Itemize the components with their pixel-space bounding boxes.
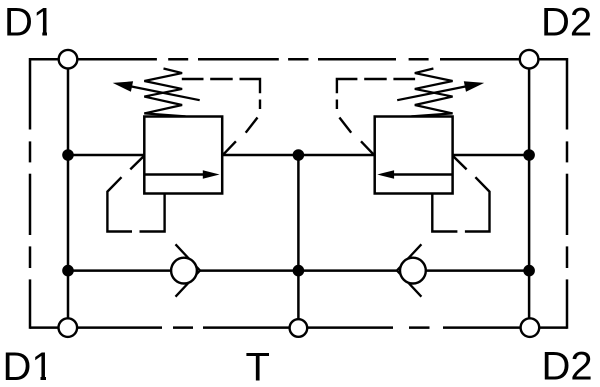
- enclosure border right: [566, 58, 569, 329]
- node dot left rail / main line: [62, 149, 74, 161]
- svg-text:D1: D1: [4, 1, 55, 45]
- svg-text:D2: D2: [541, 1, 592, 45]
- wire valve V2 to right rail: [453, 154, 529, 157]
- pilot line dashed V2 top (to spring cap): [337, 79, 415, 156]
- wire main line left rail to valve V1: [68, 154, 144, 157]
- node dot right rail / main line: [523, 149, 535, 161]
- wire center vertical T rail: [297, 155, 300, 328]
- relief valve V1 flow arrow: [144, 170, 219, 179]
- check valve C2 ball: [400, 258, 426, 284]
- wire center node to valve V2: [298, 154, 374, 157]
- node dot left rail / check line: [62, 265, 74, 277]
- pilot drain dashed V1 bottom: [107, 156, 164, 232]
- wire center node to check C2: [298, 269, 397, 272]
- svg-text:D1: D1: [3, 345, 54, 387]
- relief valve V2 body: [375, 117, 453, 194]
- relief valve V1 spring: [144, 69, 185, 117]
- wire right vertical D2 rail: [528, 59, 531, 327]
- port D1 bottom: [59, 318, 78, 337]
- node dot center / check line: [293, 265, 305, 277]
- relief valve V2 adjust arrow: [397, 81, 484, 100]
- wire check C1 to center node: [200, 269, 299, 272]
- enclosure border left: [29, 58, 32, 329]
- node dot center / main line: [293, 149, 305, 161]
- relief valve V1 adjust arrow: [113, 81, 200, 100]
- port D1 top: [59, 50, 78, 69]
- pilot drain dashed V2 bottom: [432, 156, 489, 232]
- port T: [290, 319, 308, 337]
- relief valve V1 body: [144, 117, 222, 194]
- check valve C1 seat: [176, 244, 201, 296]
- port D2 bottom: [521, 318, 540, 337]
- wire left vertical D1 rail: [67, 59, 70, 327]
- check valve C1 ball: [171, 258, 197, 284]
- relief valve V2 flow arrow: [377, 170, 452, 179]
- enclosure border bottom: [30, 326, 567, 329]
- svg-text:D2: D2: [542, 345, 593, 387]
- port D2 top: [520, 50, 539, 69]
- enclosure border top: [30, 58, 567, 61]
- pilot line dashed V1 top (to spring cap): [182, 79, 260, 156]
- wire check C2 to right rail: [413, 269, 529, 272]
- svg-text:T: T: [246, 346, 270, 387]
- wire valve V1 to center node: [222, 154, 298, 157]
- node dot right rail / check line: [523, 265, 535, 277]
- wire check line left rail to check C1: [68, 269, 184, 272]
- relief valve V2 spring: [411, 69, 452, 117]
- check valve C2 seat: [397, 244, 422, 296]
